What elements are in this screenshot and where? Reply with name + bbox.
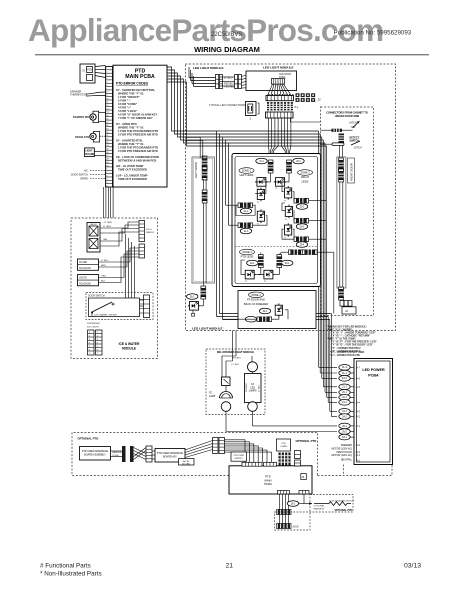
- svg-text:A1AD: A1AD: [293, 526, 299, 529]
- svg-text:DRAIN FAN: DRAIN FAN: [75, 135, 89, 139]
- svg-text:4 FOR "+": 4 FOR "+": [118, 106, 132, 110]
- LED D9: [262, 270, 275, 283]
- svg-text:OPTIONAL PTD: OPTIONAL PTD: [296, 439, 317, 443]
- auger motor box: [78, 248, 140, 270]
- svg-text:VALVE: VALVE: [90, 223, 97, 226]
- wire CB2 to right bus: [291, 118, 321, 122]
- svg-text:HINGED DOOR SIDE: HINGED DOOR SIDE: [335, 115, 360, 118]
- inline harness connector H2: [277, 524, 299, 529]
- PCBA top connector strip 2: [264, 462, 277, 466]
- svg-text:ICE &: ICE &: [146, 229, 152, 231]
- svg-text:MAIN PCBA: MAIN PCBA: [125, 74, 155, 80]
- spare terminal rows: [71, 170, 106, 181]
- svg-text:PTD LEDS: PTD LEDS: [241, 255, 254, 259]
- inline connector pair P1: [216, 75, 223, 89]
- LED D11 (left door): [188, 299, 204, 316]
- svg-text:22C50/BVS: 22C50/BVS: [211, 32, 242, 38]
- legend text block: [328, 326, 378, 354]
- svg-text:BETWEEN UI AND MAIN PCB: BETWEEN UI AND MAIN PCB: [118, 158, 156, 162]
- left door inline connector: [202, 156, 208, 180]
- wires strip C to board: [152, 451, 155, 459]
- svg-text:WHERE THE "Y" IS:: WHERE THE "Y" IS:: [118, 126, 144, 130]
- svg-text:YEL/BLK: YEL/BLK: [246, 383, 248, 392]
- svg-text:20-1: 20-1: [342, 392, 347, 394]
- J3 connector on PCBA: [301, 474, 307, 480]
- connector strip J1 of PTD main PCBA: [106, 67, 113, 188]
- door switch symbol: [89, 298, 140, 317]
- right door bottom connector: [338, 287, 344, 300]
- svg-text:NEUTRAL: NEUTRAL: [341, 459, 353, 462]
- svg-text:LT GRN: LT GRN: [103, 226, 111, 228]
- svg-text:22-1: 22-1: [342, 397, 347, 399]
- nested wires bank to PCBA connectors: [225, 440, 272, 463]
- inline connector pair 21-2: [238, 203, 253, 214]
- svg-text:J4-6: J4-6: [356, 378, 361, 380]
- ICE & WATER MODULE label: [119, 342, 140, 351]
- svg-text:120 VAC: 120 VAC: [182, 463, 191, 466]
- deli drawer light module dashed box: [206, 349, 265, 415]
- svg-text:DELI DRAWER LIGHT MODULE: DELI DRAWER LIGHT MODULE: [217, 351, 255, 354]
- svg-text:26-1: 26-1: [342, 426, 347, 428]
- svg-text:HIF - HI, OVER TEMP: HIF - HI, OVER TEMP: [116, 164, 144, 168]
- PTD MAIN PCBA box: [113, 65, 167, 187]
- dispenser interface connector strips: [87, 323, 102, 355]
- connector strip C: [146, 446, 152, 462]
- svg-text:FZ-4: FZ-4: [342, 378, 348, 380]
- svg-text:J4-1: J4-1: [356, 461, 361, 463]
- svg-text:J4-5: J4-5: [356, 387, 361, 389]
- svg-text:WHERE THE "Y" IS:: WHERE THE "Y" IS:: [118, 91, 144, 95]
- svg-text:6 FOR "X" DOOR ALARM KEY: 6 FOR "X" DOOR ALARM KEY: [118, 113, 157, 117]
- svg-text:LATCH: LATCH: [354, 147, 362, 150]
- svg-text:ZONE 2: ZONE 2: [300, 171, 310, 175]
- detect switch label: [350, 137, 360, 143]
- hatched harness bundle: [267, 102, 299, 110]
- AC feed labels: [331, 444, 360, 463]
- typical LED connector detail: [209, 102, 259, 121]
- svg-text:LAMPS: LAMPS: [249, 390, 257, 393]
- svg-text:26-1: 26-1: [190, 296, 195, 298]
- wires down from left stub: [280, 494, 289, 510]
- LED POWER PCBA box: [354, 359, 393, 465]
- node FZ-1: [339, 434, 355, 440]
- inline connector pair 20-2: [294, 198, 309, 209]
- harness fan from driver to connector bar: [268, 84, 292, 95]
- svg-text:WHERE THE "Y" IS:: WHERE THE "Y" IS:: [118, 142, 144, 146]
- door ajar resistor zigzag: [314, 502, 351, 506]
- latch connector pill: [321, 143, 345, 146]
- svg-text:24-1: 24-1: [263, 311, 268, 313]
- svg-text:Publication No: 5995629093: Publication No: 5995629093: [334, 30, 412, 37]
- svg-text:23-1: 23-1: [285, 263, 290, 265]
- wires from dispenser board to J1: [95, 66, 106, 78]
- bottom PTD MAIN PCBA box: [229, 466, 312, 494]
- wire labels: [232, 357, 242, 366]
- svg-text:03/13: 03/13: [404, 563, 421, 570]
- svg-text:20-2: 20-2: [300, 206, 305, 208]
- node 23-1: [339, 400, 361, 406]
- LED driver board box: [246, 71, 297, 91]
- node 21-1: [339, 384, 361, 390]
- svg-text:LT BLU: LT BLU: [101, 260, 109, 262]
- svg-text:HARNESS: HARNESS: [112, 451, 123, 454]
- svg-text:LED LIGHT MODULE: LED LIGHT MODULE: [263, 66, 294, 70]
- svg-text:PTD PWR: PTD PWR: [234, 455, 245, 457]
- svg-text:TO DOOR AJAR SWITCH: TO DOOR AJAR SWITCH: [329, 500, 355, 503]
- svg-text:SOLENOID: SOLENOID: [79, 283, 91, 285]
- LED D2: [274, 178, 287, 191]
- svg-text:SOLENOID: SOLENOID: [79, 268, 91, 270]
- hinged door dashed enclosure: [321, 107, 374, 316]
- LED D6: [285, 205, 293, 221]
- node 24-1: [339, 409, 361, 415]
- svg-text:ZONE 4: ZONE 4: [251, 293, 261, 297]
- svg-text:DOOR SWITCH: DOOR SWITCH: [88, 296, 105, 298]
- zone 1 label: [239, 168, 254, 177]
- svg-text:LATCH: LATCH: [349, 122, 357, 125]
- svg-text:OY - OPEN RTD,: OY - OPEN RTD,: [116, 122, 138, 126]
- connector bar CB1: [266, 94, 294, 101]
- driver board output header: [272, 79, 285, 85]
- inline connector (zone1 feed): [268, 160, 274, 173]
- connector bank strips: [213, 438, 225, 454]
- svg-text:1 FOR THE PTD DRAWER RTD: 1 FOR THE PTD DRAWER RTD: [118, 129, 158, 133]
- svg-text:22-1: 22-1: [250, 263, 255, 265]
- PTD dispenser board box: [155, 449, 185, 463]
- svg-text:TYPICAL LED CONNECTOR: TYPICAL LED CONNECTOR: [209, 103, 243, 107]
- optional dashed region lower: [275, 495, 354, 531]
- svg-text:20-3: 20-3: [300, 226, 305, 228]
- svg-text:J4-6: J4-6: [356, 445, 361, 447]
- zone 4 box: [238, 291, 316, 329]
- svg-text:MODULE: MODULE: [122, 347, 136, 351]
- power supply box: [231, 452, 247, 461]
- wires P1 to P2: [219, 77, 235, 86]
- door switch connector strip: [140, 295, 150, 318]
- ice and water connector strip: [139, 221, 154, 242]
- LED D4: [284, 186, 292, 202]
- deli lamp (incandescent): [209, 386, 233, 412]
- svg-text:21-1: 21-1: [259, 161, 264, 163]
- svg-text:* Non-Illustrated Parts: * Non-Illustrated Parts: [40, 571, 102, 578]
- right bus verticals down to LED power pcba: [319, 131, 337, 417]
- connector J2: [296, 93, 322, 102]
- svg-text:J2: J2: [318, 98, 322, 102]
- svg-text:*X-Y - CONDUCTOR IN USE: *X-Y - CONDUCTOR IN USE: [330, 355, 360, 357]
- svg-text:LT. BLU: LT. BLU: [232, 364, 240, 366]
- wires to paired connectors: [189, 67, 216, 87]
- node 22-1: [339, 395, 355, 401]
- node 24-1: [259, 308, 270, 314]
- zone 3 feed connectors: [289, 250, 334, 255]
- svg-text:UI: UI: [82, 69, 85, 73]
- svg-text:BACK OF FREEZER: BACK OF FREEZER: [244, 302, 268, 306]
- svg-text:LED LIGHT MODULE: LED LIGHT MODULE: [193, 66, 224, 70]
- latch inline connector upper (hatched): [321, 129, 353, 132]
- svg-text:20-1: 20-1: [296, 161, 301, 163]
- door switch dashed box: [86, 293, 153, 320]
- svg-text:21-1: 21-1: [342, 387, 347, 389]
- wires strip down to door switch: [126, 234, 144, 313]
- connector grid (right door): [340, 301, 352, 307]
- svg-text:LED POWER: LED POWER: [362, 368, 385, 372]
- node 22-1: [247, 255, 264, 268]
- svg-text:OPTIONAL: OPTIONAL: [314, 505, 326, 508]
- wires from PCBA to module (down-run): [167, 67, 327, 146]
- svg-text:FF DOOR AND: FF DOOR AND: [247, 297, 265, 301]
- node 20-1: [293, 158, 304, 164]
- conductor legend notes: [330, 352, 364, 357]
- inline connector pair 20-3: [294, 218, 309, 229]
- dispenser interface board (top-left small box): [80, 64, 95, 83]
- svg-text:LED: LED: [250, 387, 255, 389]
- svg-text:BRN: BRN: [101, 265, 106, 267]
- zone 3 label: [240, 249, 255, 258]
- svg-text:LEFT DOOR: LEFT DOOR: [194, 162, 198, 178]
- connector bar CB2: [266, 112, 294, 118]
- node 26-1: [339, 423, 361, 429]
- svg-text:23-1: 23-1: [342, 402, 347, 404]
- svg-text:24-2: 24-2: [342, 416, 347, 418]
- svg-text:FZ-1: FZ-1: [342, 437, 348, 439]
- svg-text:J4-1: J4-1: [356, 426, 361, 428]
- svg-text:21: 21: [226, 563, 234, 570]
- svg-text:FL-1: FL-1: [342, 373, 347, 375]
- valve wires: [100, 222, 139, 246]
- svg-text:ZONE 1: ZONE 1: [242, 169, 252, 173]
- svg-text:8-1: 8-1: [295, 105, 299, 109]
- svg-text:24-1: 24-1: [342, 411, 347, 413]
- svg-text:FL-2: FL-2: [342, 367, 347, 369]
- svg-text:BLK: BLK: [101, 281, 106, 283]
- inline connector pair 24-2: [245, 316, 271, 322]
- svg-text:YEL/BLK: YEL/BLK: [232, 357, 241, 359]
- LED D5: [257, 209, 265, 225]
- LED D8: [243, 270, 256, 283]
- svg-text:LED LIGHT MODULE: LED LIGHT MODULE: [192, 326, 223, 330]
- wires inside zone1/2: [226, 173, 327, 239]
- node 20-1: [339, 390, 355, 396]
- svg-text:PTD: PTD: [281, 443, 286, 445]
- svg-text:LOF - LO, UNDER TEMP: LOF - LO, UNDER TEMP: [116, 173, 148, 177]
- svg-text:WATER: WATER: [146, 231, 154, 234]
- wires board to bank: [185, 441, 213, 458]
- svg-text:AUGER: AUGER: [79, 261, 88, 264]
- harness header box: [277, 439, 291, 451]
- wires to H2: [280, 515, 289, 524]
- svg-text:DOOR SWITCH: DOOR SWITCH: [71, 174, 89, 177]
- latch switch lower: [351, 141, 362, 150]
- damper motor: [73, 111, 106, 122]
- svg-text:5 FOR "LOCK": 5 FOR "LOCK": [118, 109, 138, 113]
- svg-text:OPTIONAL PTD: OPTIONAL PTD: [78, 437, 99, 441]
- svg-text:2 FOR PTD FREEZER AIR RTD: 2 FOR PTD FREEZER AIR RTD: [118, 149, 158, 153]
- vertical bus wires (left of zone box): [217, 131, 332, 320]
- inline connector pair P2: [235, 75, 242, 89]
- left door feed wires: [186, 137, 206, 190]
- svg-text:25-1: 25-1: [291, 503, 296, 505]
- svg-text:ICE / WATER / CRUSH: ICE / WATER / CRUSH: [94, 314, 117, 317]
- wire color labels: [224, 77, 235, 89]
- AC inlet box: [179, 459, 195, 466]
- PCBA bottom stub left: [278, 491, 290, 495]
- svg-text:DISPENSER: DISPENSER: [87, 323, 100, 325]
- svg-text:3 FOR "CUBE": 3 FOR "CUBE": [118, 102, 138, 106]
- svg-text:+ LT GRN: + LT GRN: [102, 222, 112, 224]
- LED D3: [257, 188, 265, 204]
- PTD user interface board box: [80, 447, 111, 461]
- svg-text:ICE & WATER: ICE & WATER: [119, 342, 140, 346]
- ice and water module dashed enclosure: [71, 218, 158, 359]
- svg-text:LEFT LEDS: LEFT LEDS: [240, 173, 254, 177]
- crossing harness wires: [134, 448, 147, 460]
- right door harness strip: [337, 157, 346, 288]
- svg-text:ZONE 3: ZONE 3: [242, 250, 252, 254]
- LED light module outer dashed enclosure: [186, 64, 396, 331]
- harness label: [111, 451, 124, 457]
- svg-text:BOARD ASSEMBLY: BOARD ASSEMBLY: [84, 454, 106, 457]
- PCBA top connector strip 1: [242, 462, 262, 466]
- hinged door note text: [326, 112, 368, 125]
- connector box J1 (right door): [342, 307, 356, 314]
- svg-text:LT BLU: LT BLU: [259, 384, 261, 392]
- svg-text:SY - SHORTED RTD,: SY - SHORTED RTD,: [116, 138, 143, 142]
- latch harness bundle (hatched): [339, 134, 345, 143]
- RIGHT DOOR label box: [348, 158, 355, 183]
- inline connector pair 20-4: [294, 237, 309, 248]
- svg-text:BOARD: BOARD: [85, 153, 94, 156]
- header group: [28, 12, 429, 55]
- svg-text:J4-7: J4-7: [356, 367, 361, 369]
- node 24-2: [339, 414, 361, 420]
- svg-text:RIGHT DOOR: RIGHT DOOR: [349, 163, 353, 181]
- zone4 wires: [223, 310, 289, 319]
- svg-text:21-3: 21-3: [244, 231, 249, 233]
- svg-text:PCB: PCB: [87, 69, 92, 72]
- svg-text:7 FOR "!" UP ARROW KEY: 7 FOR "!" UP ARROW KEY: [118, 116, 153, 120]
- svg-text:21-2: 21-2: [244, 211, 249, 213]
- deli LED lamp: [245, 362, 262, 412]
- svg-text:N/C: N/C: [84, 170, 88, 173]
- inline connector pair 21-3: [238, 223, 253, 234]
- zone divider dashed: [235, 246, 318, 248]
- thermal sensor label and wire: [70, 90, 106, 97]
- svg-text:TIME OUT EXCEEDED: TIME OUT EXCEEDED: [118, 168, 147, 172]
- svg-text:2 FOR "-": 2 FOR "-": [118, 98, 131, 102]
- footer group: [40, 563, 421, 578]
- LED D1: [255, 178, 268, 191]
- inline connector (zone2 feed): [286, 160, 292, 173]
- svg-text:ICE CHUTE: ICE CHUTE: [87, 327, 99, 329]
- node FZ-4: [339, 376, 361, 382]
- svg-text:WIRING DIAGRAM: WIRING DIAGRAM: [194, 45, 260, 54]
- svg-text:"YEL": "YEL": [350, 127, 356, 129]
- svg-text:2 FOR PTD FREEZER AIR RTD: 2 FOR PTD FREEZER AIR RTD: [118, 133, 158, 137]
- wires latch to door strip: [340, 146, 343, 158]
- svg-text:SY - SHORTED KEY/BUTTON,: SY - SHORTED KEY/BUTTON,: [116, 88, 155, 92]
- feed wires into deli module: [222, 331, 252, 378]
- light board box: [85, 148, 106, 157]
- svg-text:RIGHT: RIGHT: [301, 175, 309, 179]
- svg-text:PTD ERROR CODES: PTD ERROR CODES: [116, 82, 149, 86]
- drain fan motor: [75, 131, 106, 142]
- left door harness box: [192, 157, 215, 283]
- zone3 wires: [241, 252, 289, 274]
- optional PTD dashed enclosure: [72, 433, 392, 476]
- left door lower connector: [201, 283, 207, 299]
- svg-text:ORG: ORG: [101, 276, 106, 278]
- central LED zone box: [232, 154, 321, 287]
- svg-text:MOTOR (120V AC): MOTOR (120V AC): [331, 454, 352, 457]
- water valve assembly box: [87, 223, 100, 253]
- svg-text:# Functional Parts: # Functional Parts: [40, 563, 91, 570]
- deli lamp socket: [222, 377, 231, 386]
- svg-text:1 FOR THE PTD DRAWER RTD: 1 FOR THE PTD DRAWER RTD: [118, 145, 158, 149]
- node 21-1: [256, 158, 267, 164]
- svg-text:PCBA: PCBA: [264, 482, 272, 486]
- node 23-1: [277, 255, 293, 268]
- svg-text:TAN: TAN: [103, 238, 108, 241]
- svg-text:AppliancePartsPros.com: AppliancePartsPros.com: [28, 12, 383, 48]
- node 26-2: [339, 429, 355, 435]
- title rule: [35, 54, 429, 56]
- wires PCBA J1 down to ice and water module: [104, 187, 114, 218]
- svg-text:J4-2: J4-2: [356, 455, 361, 457]
- svg-text:SUPPLY: SUPPLY: [234, 458, 243, 460]
- LED D7: [284, 223, 292, 239]
- svg-text:J4-2: J4-2: [356, 417, 361, 419]
- connector bar A: [122, 446, 126, 462]
- svg-text:LAMP: LAMP: [209, 395, 216, 398]
- svg-text:CE - LOSS OF COMMUNICATION: CE - LOSS OF COMMUNICATION: [116, 155, 159, 159]
- svg-text:J4-3: J4-3: [356, 411, 361, 413]
- svg-text:20-4: 20-4: [300, 244, 305, 246]
- inline harness connector H1: [277, 510, 292, 515]
- svg-text:LEDS: LEDS: [302, 180, 309, 184]
- node FL-2: [339, 365, 361, 371]
- hatched bundle above PCBA: [279, 453, 291, 466]
- node FL-1: [339, 370, 355, 376]
- LED D10: [275, 303, 284, 317]
- node 26-1 (left door): [187, 294, 198, 300]
- svg-text:PCBA: PCBA: [368, 374, 379, 378]
- svg-text:TIME OUT EXCEEDED: TIME OUT EXCEEDED: [118, 177, 147, 181]
- small aux connector right: [295, 451, 301, 467]
- svg-text:J4-4: J4-4: [356, 402, 361, 404]
- svg-text:1 FOR "ON/OFF": 1 FOR "ON/OFF": [118, 95, 141, 99]
- svg-text:J4-4: J4-4: [356, 452, 361, 454]
- PCBA bottom stub right: [299, 491, 309, 495]
- connector bar B: [130, 446, 134, 462]
- wires deli to 26-x nodes: [226, 411, 337, 431]
- svg-text:THERMISTOR: THERMISTOR: [70, 93, 87, 97]
- svg-text:BOARD ASY: BOARD ASY: [163, 456, 177, 459]
- wires P2 to LED driver board: [242, 75, 247, 88]
- zone 2 label: [298, 170, 313, 184]
- ice and water lower strip: [139, 244, 145, 258]
- svg-text:J1: J1: [345, 309, 348, 313]
- svg-text:SPARE: SPARE: [80, 178, 88, 181]
- svg-text:HARNESS: HARNESS: [314, 507, 325, 510]
- door ajar branch: [287, 494, 354, 510]
- svg-text:CHUTE: CHUTE: [79, 278, 87, 280]
- svg-text:CONN: CONN: [280, 446, 287, 448]
- svg-text:26-2: 26-2: [342, 431, 347, 433]
- dispenser solenoid box: [78, 254, 140, 286]
- latch switch upper: [350, 121, 360, 129]
- svg-text:*X-Y - CONDUCTOR NOT USED: *X-Y - CONDUCTOR NOT USED: [330, 352, 364, 354]
- svg-text:OPTIONAL PTD: OPTIONAL PTD: [335, 509, 353, 512]
